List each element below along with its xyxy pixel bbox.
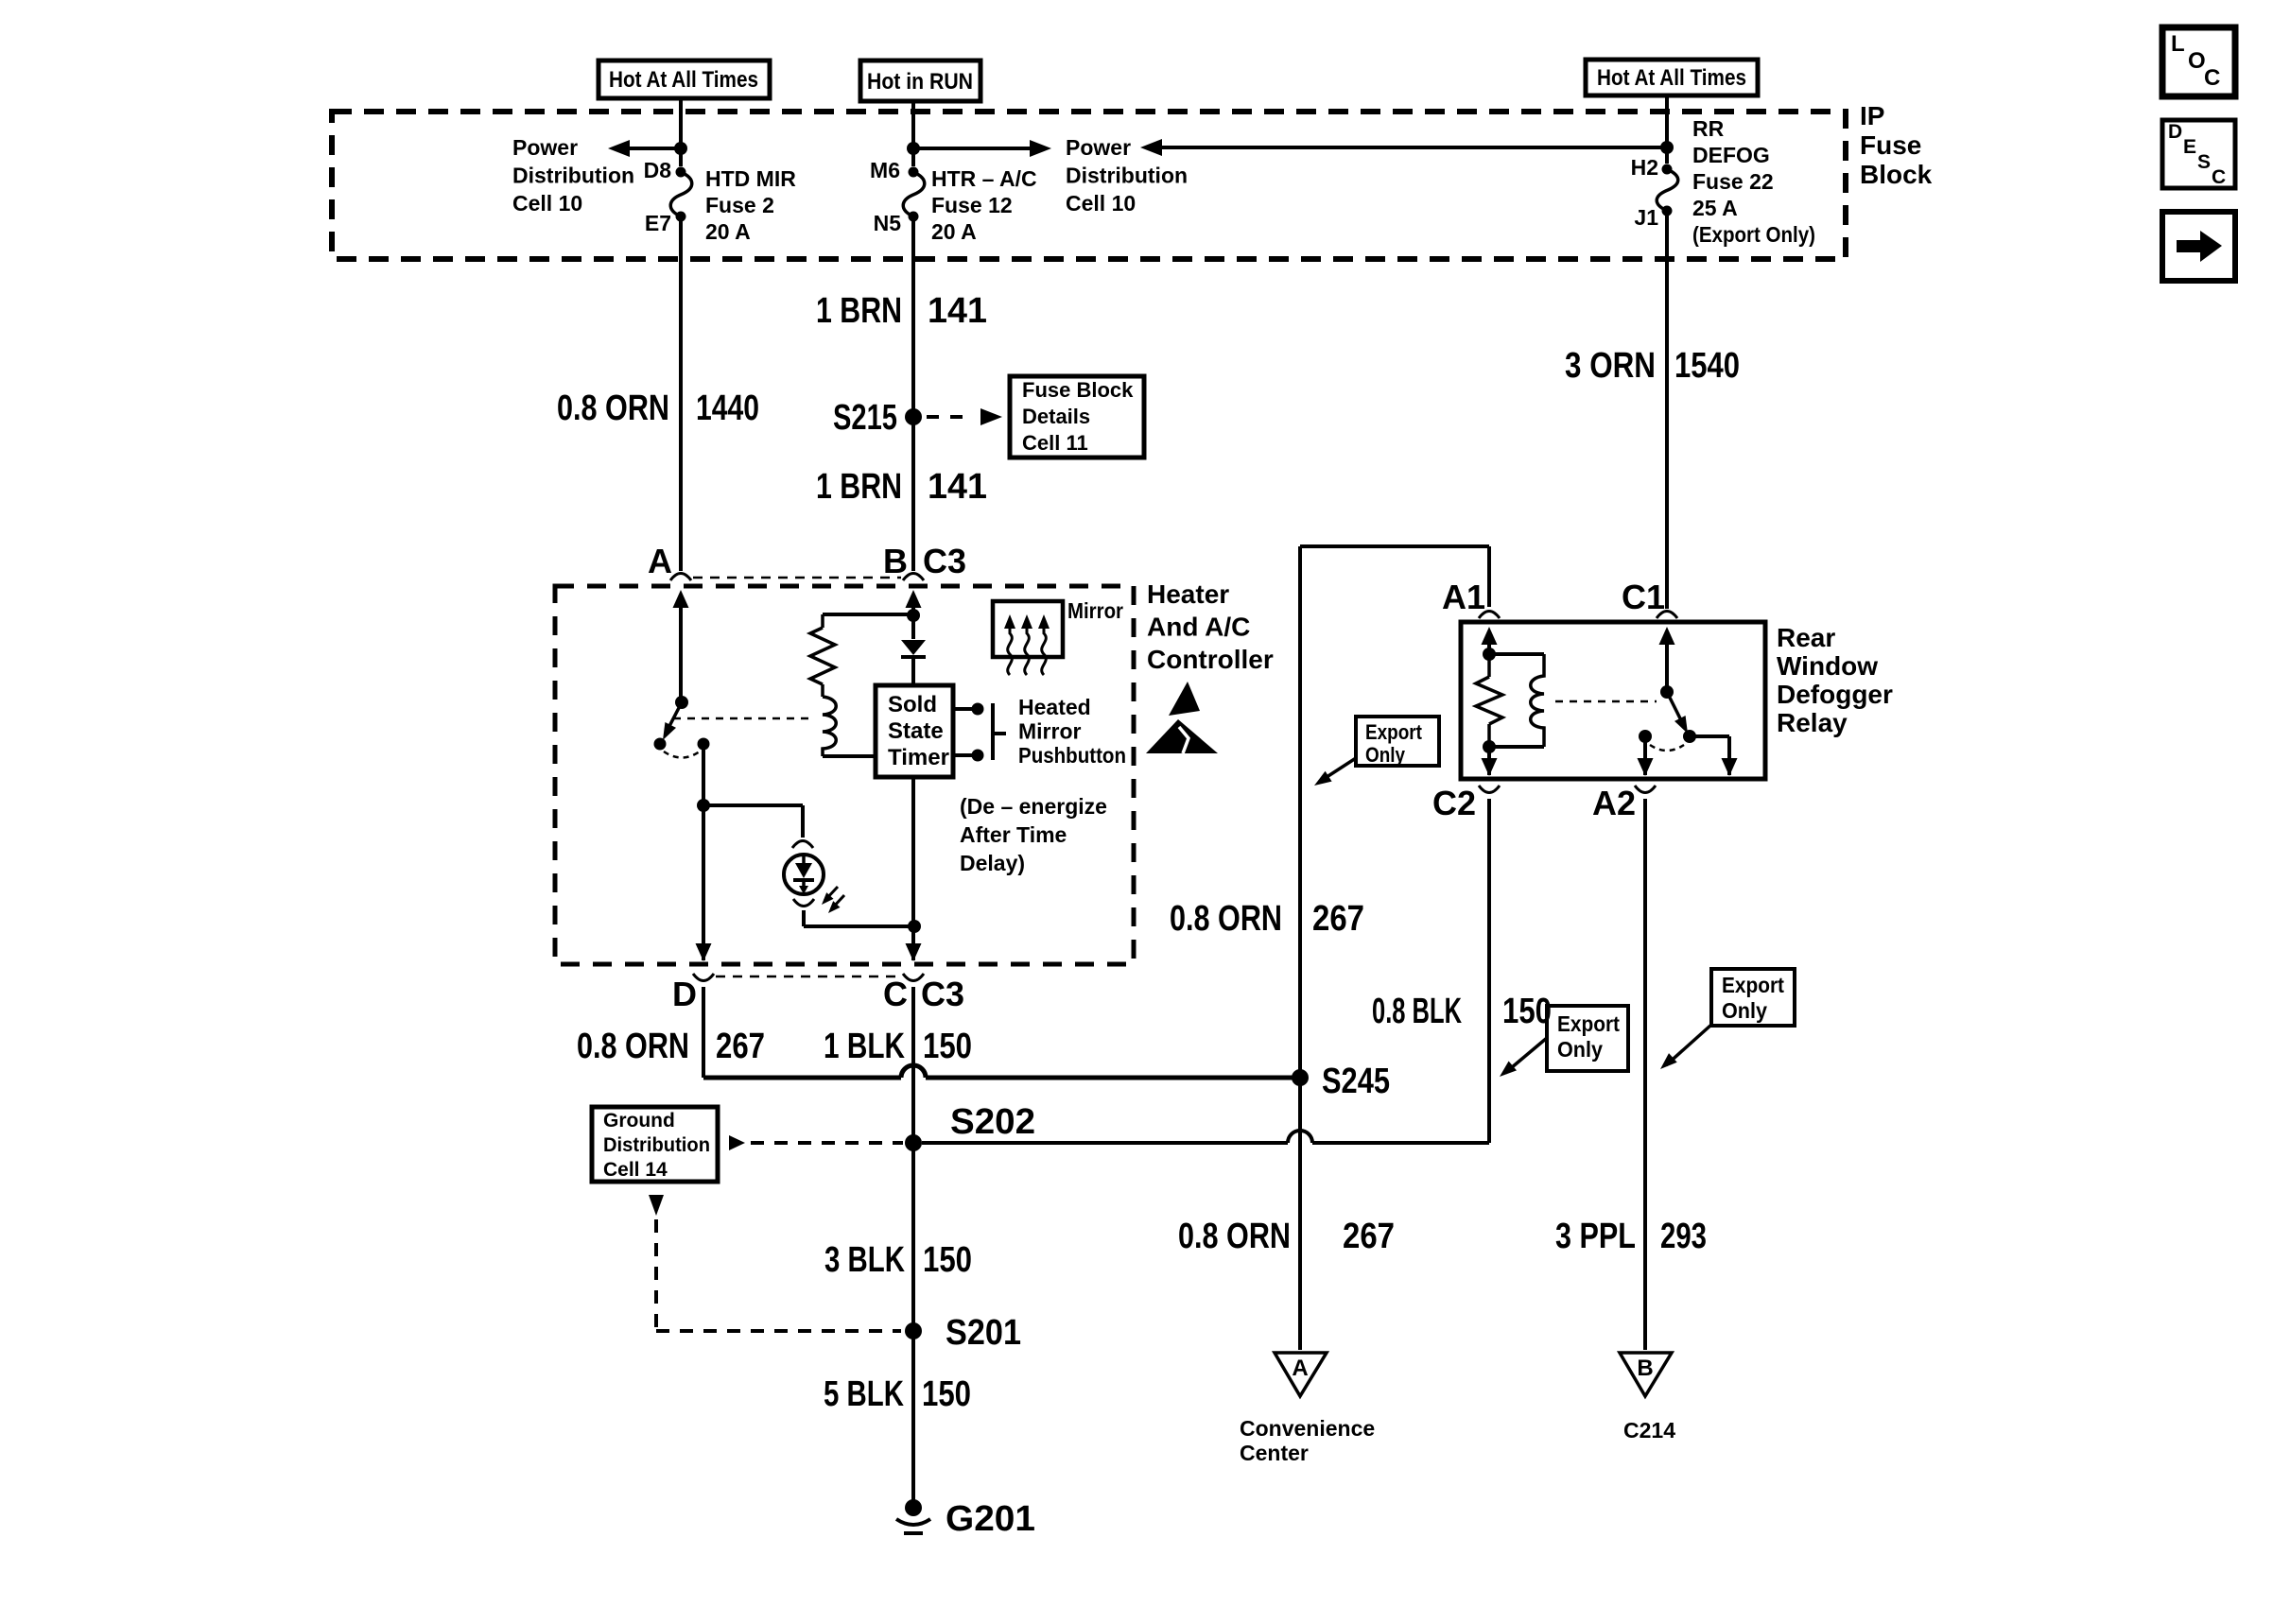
- switch pivot node: [675, 696, 688, 709]
- svg-text:5 BLK: 5 BLK: [824, 1374, 904, 1414]
- svg-text:3 ORN: 3 ORN: [1565, 346, 1656, 386]
- svg-text:Rear: Rear: [1777, 623, 1835, 652]
- mirror heating element box: [993, 601, 1063, 657]
- svg-text:C3: C3: [923, 542, 966, 580]
- wire: riser from S245 up to relay A1 feed: [1298, 546, 1302, 1078]
- controller connector line C3 (top): [693, 577, 901, 579]
- fuse RR DEFOG Fuse 22 25 A (terminals H2/J1): [1662, 164, 1673, 175]
- connector pin A (chevron + label): [670, 574, 691, 581]
- svg-text:267: 267: [1312, 899, 1364, 939]
- svg-text:C2: C2: [1432, 784, 1476, 822]
- wire: D branch horizontal to S245 with hop over BLK wire: [703, 1076, 901, 1080]
- svg-text:Center: Center: [1240, 1441, 1309, 1465]
- wire: 1 BLK 150 from connector C: [911, 987, 915, 1143]
- svg-text:150: 150: [922, 1374, 971, 1414]
- relay switch pivot node: [1660, 685, 1674, 699]
- svg-text:Mirror: Mirror: [1067, 598, 1123, 623]
- power label box 'Hot in RUN': [860, 60, 980, 101]
- wire: A2 3 PPL 293 down to connector C214: [1643, 799, 1647, 1350]
- mechanical linkage dashed (coil to relay switch): [1555, 700, 1657, 703]
- splice node S245: [1292, 1069, 1309, 1086]
- off-page connector triangle A (Convenience Center): [1275, 1353, 1327, 1396]
- dashed reference pointer down from Ground Distribution box: [649, 1195, 664, 1216]
- Export Only arrow (A2 wire): [1666, 1025, 1711, 1065]
- svg-text:Controller: Controller: [1147, 645, 1274, 674]
- Solid State Timer box: [876, 685, 953, 777]
- LED light rays: [824, 887, 838, 901]
- switch contact (left): [654, 738, 667, 751]
- svg-text:HTR – A/C: HTR – A/C: [931, 166, 1037, 191]
- svg-text:Ground: Ground: [603, 1110, 675, 1132]
- wire: 0.8 ORN 267 from connector D: [702, 987, 705, 1078]
- svg-text:J1: J1: [1634, 205, 1658, 230]
- svg-text:Fuse 2: Fuse 2: [705, 193, 774, 217]
- arrow legend box: [2162, 212, 2235, 281]
- svg-text:(Export Only): (Export Only): [1692, 222, 1815, 247]
- svg-text:1440: 1440: [696, 389, 759, 428]
- reference box Ground Distribution Cell 14: [592, 1107, 718, 1182]
- svg-text:C3: C3: [921, 975, 964, 1013]
- LED socket chevron (top): [792, 841, 813, 849]
- node: coil bottom junction: [1483, 740, 1496, 753]
- svg-text:Hot in RUN: Hot in RUN: [867, 69, 973, 95]
- dashed reference arrow to S202: [729, 1135, 745, 1150]
- svg-text:Mirror: Mirror: [1018, 719, 1082, 744]
- svg-text:150: 150: [923, 1027, 972, 1066]
- splice node S215: [905, 408, 922, 425]
- svg-text:Hot At All Times: Hot At All Times: [609, 67, 758, 93]
- heat arrow 3: [1042, 628, 1047, 675]
- ESD sensitive symbol (triangles): [1169, 682, 1200, 716]
- wire: switch contact down to connector D: [702, 805, 705, 960]
- svg-text:3 BLK: 3 BLK: [824, 1240, 905, 1280]
- wire: pin A into controller to switch: [673, 590, 689, 608]
- wire: coil bottom to relay edge (C2): [1487, 747, 1491, 775]
- node: junction at resistor tap: [907, 609, 920, 622]
- power label box 'Hot At All Times' (left): [599, 60, 770, 98]
- power label box 'Hot At All Times' (right): [1586, 60, 1758, 95]
- Export Only arrow (C2 wire): [1505, 1038, 1547, 1073]
- connector pin A1 (chevron + label): [1479, 612, 1500, 619]
- svg-text:M6: M6: [870, 158, 900, 182]
- pushbutton contact dot (lower): [972, 750, 984, 762]
- pushbutton actuator bar: [991, 703, 995, 760]
- svg-text:1 BLK: 1 BLK: [824, 1027, 905, 1066]
- svg-text:L: L: [2171, 31, 2185, 57]
- svg-text:Only: Only: [1557, 1037, 1603, 1062]
- ground G201: [905, 1499, 922, 1516]
- LED socket chevron (bottom): [793, 899, 814, 907]
- switch arm (heated mirror switch): [668, 702, 682, 730]
- svg-text:A: A: [1292, 1356, 1308, 1381]
- wire: left Hot At All Times feed into fuse block: [679, 98, 683, 166]
- svg-text:C214: C214: [1623, 1418, 1675, 1443]
- pushbutton contact dot (upper): [972, 703, 984, 716]
- wire: relay arm to normally-open terminal: [1690, 734, 1729, 738]
- svg-text:C: C: [2212, 166, 2226, 188]
- splice node S202: [905, 1134, 922, 1151]
- svg-text:0.8 ORN: 0.8 ORN: [557, 389, 669, 428]
- svg-text:Export: Export: [1365, 720, 1423, 744]
- svg-text:Window: Window: [1777, 651, 1878, 681]
- svg-text:A: A: [648, 542, 672, 580]
- LED indicator: [784, 855, 824, 894]
- relay coil branch top: [1489, 652, 1544, 656]
- Export Only box (relay coil feed): [1356, 717, 1439, 766]
- svg-text:Relay: Relay: [1777, 708, 1848, 737]
- wire: arrow to Power Distribution (left): [628, 147, 681, 150]
- svg-text:Convenience: Convenience: [1240, 1416, 1375, 1441]
- svg-text:C1: C1: [1622, 578, 1665, 616]
- svg-text:20 A: 20 A: [931, 219, 977, 244]
- wire: junction to resistor top: [823, 613, 913, 616]
- svg-text:Power: Power: [512, 135, 578, 160]
- svg-text:D: D: [2168, 121, 2182, 143]
- svg-text:Cell 11: Cell 11: [1022, 431, 1088, 455]
- node: junction LED tap: [697, 799, 710, 812]
- mechanical linkage dashed (switch to coil): [673, 717, 813, 720]
- wire: top horizontal to A1: [1300, 544, 1489, 548]
- resistor (controller, timer feed): [821, 614, 824, 628]
- fuse HTR-A/C Fuse 12 20 A (terminals M6/N5): [909, 167, 919, 178]
- Export Only box (C2 wire): [1547, 1006, 1628, 1071]
- svg-text:A2: A2: [1592, 784, 1636, 822]
- wire: 1 BRN 141 from S215 down to connector B: [911, 417, 915, 571]
- Rear Window Defogger Relay box: [1461, 622, 1765, 779]
- svg-text:3 PPL: 3 PPL: [1555, 1217, 1636, 1256]
- svg-text:S: S: [2197, 151, 2211, 173]
- svg-text:150: 150: [923, 1240, 972, 1280]
- svg-text:E7: E7: [645, 211, 671, 235]
- relay switch contact (left): [1639, 730, 1652, 743]
- wire: pin B into controller: [906, 590, 922, 608]
- svg-text:Only: Only: [1365, 743, 1406, 767]
- diode (controller): [911, 615, 915, 639]
- svg-text:293: 293: [1660, 1217, 1707, 1256]
- svg-text:25 A: 25 A: [1692, 196, 1738, 220]
- svg-text:Only: Only: [1722, 998, 1767, 1023]
- pushbutton contact leads: [953, 707, 972, 711]
- connector pin B (chevron + label): [903, 574, 924, 581]
- svg-text:S201: S201: [946, 1313, 1021, 1353]
- relay switch arm: [1667, 692, 1683, 724]
- svg-text:E: E: [2183, 136, 2196, 158]
- svg-text:C: C: [883, 975, 908, 1013]
- svg-text:Power: Power: [1066, 135, 1131, 160]
- svg-text:Fuse: Fuse: [1860, 130, 1921, 160]
- relay switch arm contact node: [1683, 730, 1696, 743]
- svg-text:H2: H2: [1631, 155, 1658, 180]
- heat arrow 2: [1025, 628, 1030, 675]
- wire: relay contact to A2 edge: [1643, 736, 1647, 775]
- splice node S201: [905, 1322, 922, 1339]
- svg-text:C: C: [2204, 65, 2220, 91]
- wire: 1 BRN 141 from fuse N5 down to S215: [911, 216, 915, 417]
- connector pin D (chevron + label): [693, 974, 714, 981]
- svg-text:141: 141: [928, 467, 987, 507]
- wire: S245 down to Convenience Center: [1298, 1078, 1302, 1350]
- switch throw dashed arc: [664, 752, 700, 758]
- svg-text:Fuse 22: Fuse 22: [1692, 169, 1774, 194]
- wire: LED return to timer output: [802, 910, 806, 926]
- svg-text:20 A: 20 A: [705, 219, 751, 244]
- node: junction timer output / LED return: [908, 920, 921, 933]
- wire: Hot in RUN feed into fuse block: [911, 101, 915, 166]
- svg-text:Fuse Block: Fuse Block: [1022, 378, 1134, 402]
- node: junction on HTR-A/C feed: [907, 142, 920, 155]
- svg-text:B: B: [883, 542, 908, 580]
- wire: C1 into relay switch: [1659, 627, 1675, 645]
- svg-text:267: 267: [716, 1027, 765, 1066]
- wire: A1 into relay coil top: [1482, 627, 1498, 645]
- svg-text:G201: G201: [946, 1499, 1035, 1539]
- svg-text:0.8 ORN: 0.8 ORN: [577, 1027, 689, 1066]
- svg-text:N5: N5: [874, 211, 902, 235]
- svg-text:Heated: Heated: [1018, 695, 1091, 719]
- wire: coil bottom into Solid State Timer: [823, 754, 876, 758]
- svg-text:Distribution: Distribution: [1066, 164, 1188, 188]
- svg-text:B: B: [1637, 1356, 1653, 1381]
- svg-text:141: 141: [928, 291, 987, 331]
- svg-text:1 BRN: 1 BRN: [816, 291, 902, 331]
- reference box Fuse Block Details Cell 11: [1010, 376, 1144, 458]
- svg-text:D8: D8: [644, 158, 672, 182]
- svg-text:S245: S245: [1322, 1062, 1390, 1101]
- svg-text:Defogger: Defogger: [1777, 680, 1893, 709]
- svg-text:1 BRN: 1 BRN: [816, 467, 902, 507]
- svg-text:(De – energize: (De – energize: [960, 794, 1107, 819]
- svg-text:0.8 BLK: 0.8 BLK: [1372, 992, 1462, 1031]
- svg-text:S202: S202: [950, 1102, 1035, 1142]
- svg-text:DEFOG: DEFOG: [1692, 143, 1770, 167]
- DESC legend box: [2162, 120, 2235, 188]
- Heater And A/C Controller dashed outline: [555, 586, 1134, 964]
- wire: LED branch horizontal: [703, 803, 803, 807]
- svg-text:Hot At All Times: Hot At All Times: [1597, 65, 1746, 91]
- wire: 5 BLK 150 from S201 to ground: [911, 1331, 915, 1507]
- svg-text:HTD MIR: HTD MIR: [705, 166, 796, 191]
- svg-text:Distribution: Distribution: [512, 164, 634, 188]
- wire: switch right contact down to LED tap: [702, 744, 705, 805]
- Export Only arrow (relay coil feed): [1321, 758, 1356, 781]
- svg-text:1540: 1540: [1674, 346, 1740, 386]
- svg-text:And A/C: And A/C: [1147, 613, 1250, 642]
- svg-text:Export: Export: [1557, 1011, 1620, 1036]
- connector pin C1 (chevron + label): [1657, 612, 1677, 619]
- svg-text:Export: Export: [1722, 973, 1784, 997]
- svg-text:Cell 10: Cell 10: [1066, 191, 1136, 216]
- wire: long arrow to Power Distribution (center): [1162, 146, 1667, 149]
- wire: arrow to Power Distribution (center): [913, 147, 1031, 150]
- svg-text:After Time: After Time: [960, 822, 1067, 847]
- svg-text:0.8 ORN: 0.8 ORN: [1170, 899, 1282, 939]
- svg-text:State: State: [888, 718, 944, 744]
- svg-text:Cell 14: Cell 14: [603, 1159, 668, 1181]
- svg-text:IP: IP: [1860, 101, 1884, 130]
- node: junction on HTD MIR feed: [674, 142, 687, 155]
- svg-text:Distribution: Distribution: [603, 1134, 710, 1156]
- svg-text:267: 267: [1343, 1217, 1395, 1256]
- svg-text:Details: Details: [1022, 405, 1090, 428]
- svg-text:Heater: Heater: [1147, 579, 1229, 609]
- svg-text:D: D: [672, 975, 697, 1013]
- wire: timer output down to connector C: [911, 777, 915, 960]
- wire: 3 ORN 1540 from fuse J1 down to relay C1: [1665, 211, 1669, 609]
- svg-text:RR: RR: [1692, 116, 1725, 141]
- connector pin C2 (chevron + label): [1479, 786, 1500, 793]
- node: junction on RR DEFOG feed: [1660, 141, 1674, 154]
- node: coil top junction: [1483, 648, 1496, 661]
- svg-text:Delay): Delay): [960, 851, 1025, 875]
- inductor coil (controller timer coil): [823, 697, 836, 756]
- relay switch throw dashed arc: [1650, 745, 1684, 751]
- svg-text:150: 150: [1502, 992, 1552, 1031]
- switch contact (right): [698, 738, 710, 751]
- heat arrow 1: [1008, 628, 1013, 675]
- relay resistor: [1487, 654, 1491, 677]
- connector pin C (chevron + label): [903, 974, 924, 981]
- IP fuse block dashed outline: [332, 112, 1846, 259]
- svg-text:A1: A1: [1442, 578, 1485, 616]
- svg-text:Pushbutton: Pushbutton: [1018, 743, 1126, 768]
- LOC legend box: [2162, 27, 2235, 96]
- wire: right Hot At All Times feed into fuse block: [1665, 95, 1669, 164]
- wire: 0.8 ORN 1440 from fuse E7 down to connector A: [679, 216, 683, 571]
- Export Only box (A2 wire): [1711, 969, 1795, 1026]
- wire: 3 BLK 150 from S202 to S201: [911, 1143, 915, 1331]
- relay coil branch bottom: [1489, 745, 1544, 749]
- svg-text:O: O: [2188, 48, 2206, 74]
- svg-text:Fuse 12: Fuse 12: [931, 193, 1013, 217]
- svg-text:Cell 10: Cell 10: [512, 191, 582, 216]
- svg-text:S215: S215: [833, 398, 897, 438]
- dashed reference arrow from S215 to Fuse Block Details: [927, 415, 974, 419]
- svg-text:Block: Block: [1860, 160, 1933, 189]
- controller connector line C3 (bottom): [716, 976, 901, 978]
- svg-text:0.8 ORN: 0.8 ORN: [1178, 1217, 1291, 1256]
- connector pin A2 (chevron + label): [1635, 786, 1656, 793]
- wire: C2 0.8 BLK 150 down and left to S202: [1487, 799, 1491, 1143]
- svg-text:Timer: Timer: [888, 745, 949, 770]
- relay coil: [1531, 654, 1544, 747]
- off-page connector triangle B (C214): [1620, 1353, 1672, 1396]
- fuse HTD MIR Fuse 2 20 A (terminals D8/E7): [676, 167, 686, 178]
- svg-text:Sold: Sold: [888, 692, 937, 717]
